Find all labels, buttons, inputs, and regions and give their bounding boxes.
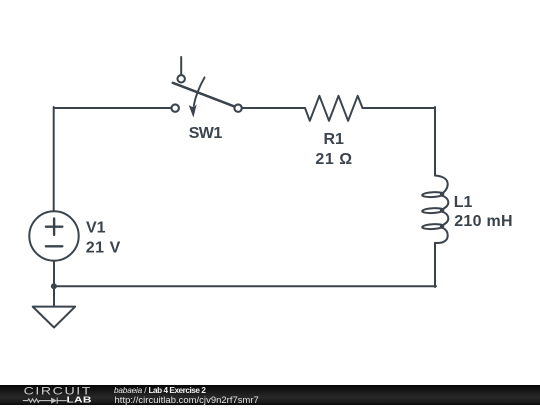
wire switch top stub: [180, 57, 182, 75]
wire right vertical lower: [434, 243, 436, 287]
resistor R1: [305, 96, 363, 121]
wire bottom horizontal: [54, 285, 436, 287]
svg-text:SW1: SW1: [189, 125, 223, 142]
wire top-left horizontal: [54, 107, 172, 109]
svg-text:LAB: LAB: [67, 396, 92, 405]
ground: [33, 307, 75, 328]
wire source-to-ground stub: [53, 261, 55, 307]
switch SW1: [172, 75, 242, 117]
svg-text:R1: R1: [324, 131, 345, 148]
svg-text:210 mH: 210 mH: [454, 213, 513, 230]
wire switch-to-resistor: [242, 107, 305, 109]
svg-text:V1: V1: [86, 220, 106, 237]
wire right vertical upper: [434, 107, 436, 176]
inductor L1: [422, 176, 448, 244]
wire left vertical: [53, 107, 55, 211]
voltage source V1: [29, 211, 78, 260]
svg-text:21 V: 21 V: [86, 240, 121, 257]
svg-text:21 Ω: 21 Ω: [315, 151, 352, 168]
wire resistor-to-corner: [363, 107, 436, 109]
circuitlab logo: [0, 385, 100, 405]
svg-text:L1: L1: [454, 194, 473, 211]
node junction dot: [51, 283, 57, 289]
footer bar: [0, 385, 540, 405]
